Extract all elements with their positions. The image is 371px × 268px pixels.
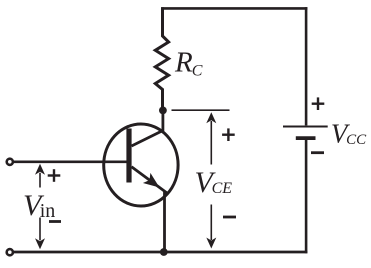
svg-text:CE: CE <box>212 180 233 197</box>
label VCC plus <box>312 97 325 110</box>
wire top rail <box>161 7 307 10</box>
label VCE <box>195 166 233 199</box>
node collector junction <box>159 107 167 115</box>
arrow Vin measurement top <box>35 164 45 188</box>
wire bottom rail <box>14 251 308 254</box>
battery VCC short plate <box>296 136 316 140</box>
arrow VCE measurement top <box>206 112 216 164</box>
arrow Vin measurement bottom <box>35 218 45 250</box>
transistor Q1 circle <box>104 124 178 206</box>
wire emitter lead <box>132 167 169 252</box>
wire VCC bottom lead <box>305 140 308 253</box>
svg-text:CC: CC <box>346 132 367 148</box>
label VCE plus <box>222 128 235 141</box>
wire base lead from input <box>14 161 127 164</box>
terminal input top <box>7 159 13 165</box>
label VCC <box>331 118 367 148</box>
label VCE minus <box>223 216 236 219</box>
battery VCC long plate <box>283 125 328 127</box>
label Vin minus <box>49 220 61 223</box>
label Vin plus <box>48 169 61 182</box>
svg-text:C: C <box>192 62 203 79</box>
label Vin <box>23 189 55 222</box>
wire VCC top lead <box>305 7 308 125</box>
wire collector tick (VCE + reference) <box>172 109 230 111</box>
arrow VCE measurement bottom <box>206 205 216 249</box>
label RC <box>174 46 203 79</box>
transistor Q1 emitter arrowhead <box>143 173 160 188</box>
svg-text:in: in <box>40 200 56 222</box>
wire collector lead <box>132 110 163 146</box>
node emitter junction <box>160 248 168 256</box>
transistor Q1 base bar <box>126 129 131 183</box>
resistor RC <box>155 7 168 107</box>
label VCC minus <box>311 151 324 154</box>
terminal input bottom <box>7 249 13 255</box>
svg-text:R: R <box>174 46 193 78</box>
